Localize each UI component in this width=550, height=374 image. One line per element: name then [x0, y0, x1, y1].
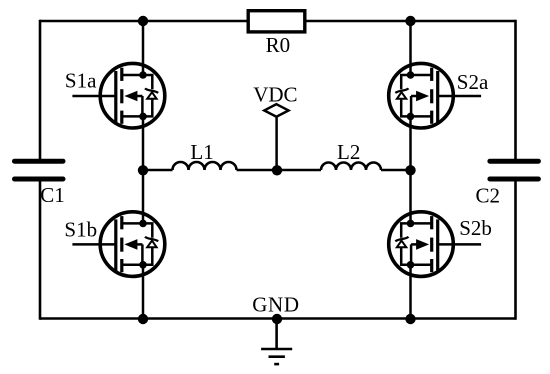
- wire left leg: S1a source to mid node: [142, 116, 145, 170]
- capacitor C1: [15, 161, 64, 179]
- wire left leg: mid node to S1b drain: [142, 170, 145, 223]
- wire VDC stem to mid rail: [275, 117, 278, 170]
- wire left leg: S1b source to bottom rail: [142, 265, 145, 319]
- svg-text:C1: C1: [40, 183, 65, 207]
- wire bottom rail: [40, 317, 516, 320]
- wire mid rail: left node to L1: [143, 169, 173, 172]
- svg-text:GND: GND: [252, 293, 300, 317]
- svg-text:C2: C2: [476, 184, 501, 208]
- wire left rail lower (C1 bottom plate to bottom rail): [39, 181, 42, 320]
- wire mid rail: L1 to L2 through VDC node: [237, 169, 322, 172]
- ground symbol: [261, 319, 292, 365]
- node bottom-right junction: [405, 314, 415, 324]
- transistor S2b (N-MOSFET with body diode, mirrored): [389, 212, 481, 277]
- wire right rail lower (C2 bottom plate to bottom rail): [514, 181, 517, 320]
- wire mid rail: L2 to right node: [381, 169, 411, 172]
- svg-text:VDC: VDC: [253, 83, 297, 107]
- svg-text:L1: L1: [190, 140, 213, 164]
- inductor L1: [173, 162, 237, 170]
- wire right rail upper (top rail to C2 top plate): [514, 20, 517, 160]
- svg-text:S2a: S2a: [457, 70, 489, 94]
- wire top rail: [40, 20, 516, 23]
- node top-left junction: [138, 16, 148, 26]
- node mid-left junction: [138, 165, 148, 175]
- node GND junction: [272, 314, 282, 324]
- wire right leg: S2b source to bottom rail: [409, 265, 412, 319]
- transistor S1a (N-MOSFET with body diode): [72, 63, 164, 128]
- VDC source diamond symbol: [264, 104, 288, 117]
- svg-text:R0: R0: [266, 33, 291, 57]
- node top-right junction: [405, 16, 415, 26]
- wire right leg: S2a source to mid node: [409, 116, 412, 170]
- wire right leg: top rail to S2a drain: [409, 21, 412, 75]
- wire right leg: mid node to S2b drain: [409, 170, 412, 223]
- transistor S2a (N-MOSFET with body diode, mirrored): [389, 63, 481, 128]
- svg-text:L2: L2: [337, 140, 360, 164]
- resistor R0: [248, 11, 305, 32]
- node bottom-left junction: [138, 314, 148, 324]
- wire left leg: top rail to S1a drain: [142, 21, 145, 75]
- node VDC junction: [272, 165, 282, 175]
- svg-text:S1a: S1a: [65, 69, 97, 93]
- transistor S1b (N-MOSFET with body diode): [72, 212, 164, 277]
- svg-text:S2b: S2b: [459, 216, 492, 240]
- capacitor C2: [490, 161, 539, 179]
- wire left rail upper (top rail to C1 top plate): [39, 20, 42, 160]
- inductor L2: [321, 163, 381, 170]
- node mid-right junction: [405, 165, 415, 175]
- svg-text:S1b: S1b: [64, 218, 97, 242]
